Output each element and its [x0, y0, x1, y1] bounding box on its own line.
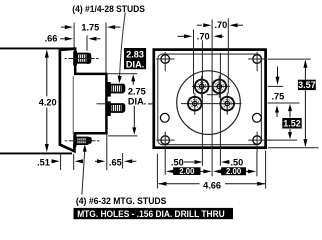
terminal stud bottom-left: [187, 96, 203, 112]
terminal stud bottom-right: [219, 96, 235, 112]
extension line center column: [211, 20, 213, 177]
middle stud 1 body: [111, 85, 123, 93]
center dash of stud group: [207, 94, 218, 96]
middle stud 2 threads: [113, 105, 121, 111]
svg-text:2.00: 2.00: [179, 167, 195, 176]
middle stud 2 flange: [107, 101, 111, 116]
projection line from step corner: [72, 76, 74, 135]
svg-text:.66: .66: [45, 33, 58, 43]
plate inner line: [158, 54, 262, 145]
dimension 1.75: [61, 26, 66, 28]
corner hole bottom-right: [253, 136, 262, 145]
2.75 dimension down arrow: [133, 106, 135, 129]
arrow under 2.83 box: [108, 73, 137, 75]
bottom stud cap: [87, 137, 91, 144]
label 2.83 DIA. black box: [124, 48, 146, 69]
corner hole bottom-left: [161, 136, 170, 145]
extension line 4.66 right: [265, 151, 267, 189]
svg-text:2.00: 2.00: [226, 167, 242, 176]
extension line x74.1: [73, 23, 75, 48]
stud row crossline top: [192, 85, 230, 87]
can centerline dash: [97, 103, 106, 105]
stud col crosshair TR: [218, 76, 220, 98]
svg-text:.65: .65: [109, 158, 122, 168]
bottom stud centerline: [69, 140, 96, 142]
svg-text:.51: .51: [37, 158, 50, 168]
top stud cap: [87, 53, 91, 64]
svg-text:MTG. HOLES - .156 DIA. DRILL T: MTG. HOLES - .156 DIA. DRILL THRU: [77, 209, 225, 220]
extension line x105.8: [105, 23, 107, 74]
svg-text:(4) #6-32 MTG. STUDS: (4) #6-32 MTG. STUDS: [76, 196, 167, 207]
big circle 2.75 dia: [177, 71, 241, 135]
label MTG. HOLES box: [74, 208, 234, 219]
can bottom extension line: [108, 135, 137, 137]
svg-text:.50: .50: [231, 157, 244, 167]
dimension 1.52: [268, 102, 300, 104]
middle stud 1 cap: [122, 84, 126, 93]
bottom stud body: [77, 138, 88, 145]
leader to bottom label: [82, 150, 85, 195]
middle stud 2 cap: [122, 103, 126, 112]
extension line BR column: [227, 18, 229, 93]
leader from top label to stud: [120, 13, 126, 79]
middle stud 1 flange: [107, 82, 111, 97]
dimension 4.66: [158, 183, 199, 185]
dimension .65: [106, 135, 108, 171]
plate bottom edge extension right: [268, 147, 319, 149]
dimension .70 upper: [197, 24, 202, 26]
top stud flange: [73, 51, 77, 65]
stud col crosshair BR: [226, 93, 228, 115]
svg-text:.75: .75: [272, 91, 285, 101]
extension line TR column: [219, 53, 221, 166]
svg-text:.70: .70: [197, 31, 210, 41]
dimension 2.00 right: [213, 169, 221, 173]
dimension .70 lower: [178, 35, 185, 37]
svg-text:DIA.: DIA.: [128, 96, 146, 106]
dimension .50 right: [227, 161, 230, 163]
dimension 4.20: [46, 52, 48, 97]
svg-text:1.52: 1.52: [283, 119, 301, 129]
corner hole top-right: [253, 55, 262, 64]
svg-text:1.75: 1.75: [81, 22, 99, 32]
plate outer border: [154, 50, 266, 148]
mid-edge hole right: [253, 113, 262, 122]
terminal stud top-right: [211, 78, 227, 94]
extension line bottom hole row right: [268, 139, 298, 141]
extension line left hole column bottom: [164, 152, 166, 175]
dimension .51: [60, 154, 62, 170]
top stud centerline: [68, 58, 94, 60]
extension line right hole column bottom: [256, 152, 258, 176]
stud col crosshair BL: [194, 93, 196, 115]
extension line TL column: [201, 40, 203, 166]
panel bottom edge line: [0, 152, 72, 154]
dimension .50 left: [184, 161, 194, 163]
terminal stud top-left: [194, 78, 210, 94]
centerline dash left of plate: [148, 103, 154, 105]
chassis profile front faces and steps: [75, 47, 106, 136]
svg-text:4.66: 4.66: [203, 180, 221, 190]
svg-text:2.83: 2.83: [126, 50, 144, 60]
extension line 4.66 left: [156, 154, 158, 189]
svg-text:.70: .70: [215, 20, 228, 30]
bottom stud flange: [73, 135, 76, 147]
top stud body: [77, 54, 87, 63]
svg-text:2.75: 2.75: [128, 86, 146, 96]
dimension .66: [60, 38, 66, 40]
mid-edge hole left: [160, 113, 169, 122]
chassis profile left/top/bottom: [60, 49, 75, 152]
extension line BL column: [193, 30, 195, 94]
bottom stud threads: [79, 139, 87, 144]
panel top edge line: [0, 47, 74, 49]
corner hole top-left: [161, 55, 170, 64]
svg-text:(4) #1/4-28 STUDS: (4) #1/4-28 STUDS: [72, 4, 145, 15]
svg-text:4.20: 4.20: [39, 97, 57, 107]
top stud threads: [79, 55, 85, 62]
dimension .75 right side: [268, 85, 284, 87]
svg-text:.50: .50: [171, 157, 184, 167]
middle stud 2 body: [111, 104, 123, 112]
dimension 2.00 left: [166, 169, 174, 173]
stud row crossline bottom: [181, 103, 242, 105]
extension line top hole row right: [268, 58, 311, 60]
svg-text:DIA.: DIA.: [126, 60, 144, 70]
svg-text:3.57: 3.57: [298, 80, 316, 90]
dimension 3.57: [304, 61, 306, 80]
extension line x87: [86, 35, 88, 50]
stud col crosshair TL: [201, 76, 203, 98]
middle stud 1 threads: [113, 86, 121, 92]
